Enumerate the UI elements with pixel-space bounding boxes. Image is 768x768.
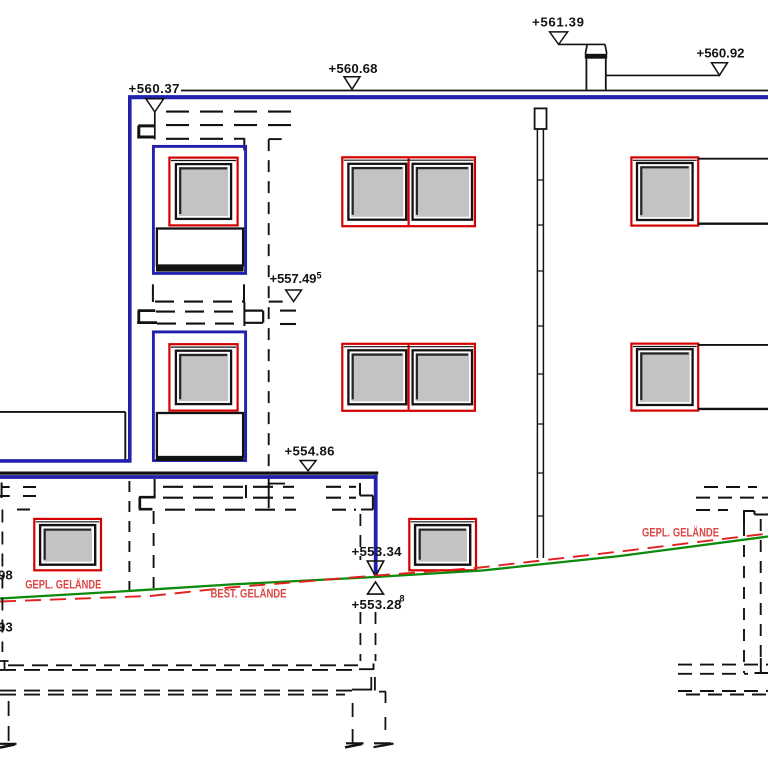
band marker tick bbox=[269, 301, 283, 303]
band dashes row1 bbox=[155, 301, 244, 303]
band short dash lower bbox=[280, 323, 296, 325]
wing blue roof line bbox=[0, 459, 132, 463]
wing parapet right edge bbox=[124, 412, 126, 460]
svg-text:+554.86: +554.86 bbox=[285, 444, 335, 459]
svg-text:+553.34: +553.34 bbox=[352, 544, 403, 559]
gepl gelaende green line bbox=[0, 537, 768, 599]
basement window left bbox=[34, 519, 101, 570]
foundation row2 solid end bbox=[352, 689, 372, 691]
bslab dashes row1 bbox=[163, 486, 294, 488]
chimney leader line bbox=[559, 43, 587, 45]
level marker +554.86 bbox=[285, 444, 335, 471]
benchmark triangle up bbox=[368, 582, 384, 594]
under-roof slab dashes row2 bbox=[166, 124, 292, 126]
foundation row1 right corner bbox=[359, 664, 374, 671]
level marker +560.37 bbox=[129, 81, 180, 112]
svg-text:+560.92: +560.92 bbox=[697, 46, 745, 61]
window W-R1 bbox=[631, 157, 698, 225]
best gelaende red dashed line bbox=[0, 534, 768, 602]
balcony slab bar upper bbox=[156, 266, 244, 272]
window W4 bbox=[169, 344, 237, 410]
neighbor wall dashed right bbox=[760, 519, 762, 658]
foundation row2b bbox=[0, 694, 345, 696]
foundation left corner bbox=[0, 660, 9, 670]
downpipe joints bbox=[537, 180, 543, 516]
band tick right bbox=[243, 284, 245, 302]
svg-text:+553.28: +553.28 bbox=[352, 597, 402, 612]
under-roof slab dashes row1 bbox=[166, 111, 296, 113]
svg-text:8: 8 bbox=[400, 594, 405, 604]
window pair W5/W6 bbox=[342, 344, 475, 411]
wing basement dashed wall bbox=[128, 481, 130, 590]
footing symbol right bbox=[374, 742, 391, 744]
foundation row1b bbox=[0, 669, 352, 671]
foundation row1a bbox=[8, 664, 358, 666]
window pair W2/W3 bbox=[342, 157, 475, 226]
svg-text:+560.37: +560.37 bbox=[129, 81, 180, 96]
benchmark triangle down bbox=[367, 561, 383, 576]
svg-text:GEPL. GELÄNDE: GEPL. GELÄNDE bbox=[25, 579, 101, 592]
left edge dashed vertical bbox=[1, 510, 3, 653]
svg-text:+560.68: +560.68 bbox=[329, 61, 378, 76]
neighbor dashes row1 bbox=[704, 486, 757, 488]
loggia blue box lower bbox=[153, 332, 245, 461]
wing bslab tick bbox=[0, 483, 10, 499]
foundation right corner bbox=[379, 692, 386, 703]
band short dash upper bbox=[280, 310, 296, 312]
foundation row2a bbox=[0, 690, 352, 692]
footing stud mid bbox=[352, 703, 354, 743]
foundation right row2b bbox=[686, 694, 768, 696]
svg-text:BEST. GELÄNDE: BEST. GELÄNDE bbox=[211, 588, 287, 601]
svg-text:GEPL. GELÄNDE: GEPL. GELÄNDE bbox=[642, 527, 719, 540]
wing parapet line bbox=[0, 411, 125, 413]
bslab dashed wall left bbox=[153, 511, 155, 588]
wing bslab dashes row2 bbox=[23, 495, 36, 497]
blue corner wall bbox=[374, 475, 378, 577]
benchmark dashed drop right bbox=[375, 612, 377, 661]
svg-text:+561.39: +561.39 bbox=[532, 15, 584, 30]
foundation right row2a bbox=[678, 690, 768, 692]
foundation right row1a bbox=[678, 664, 768, 666]
slab blue line bbox=[0, 475, 376, 479]
slab black line bbox=[0, 471, 378, 474]
level marker +561.39 bbox=[532, 15, 584, 45]
bslab bracket left bbox=[139, 497, 156, 509]
blue parapet top band bbox=[128, 95, 768, 99]
wing bslab dash extra bbox=[17, 509, 30, 511]
band lines right lower bbox=[698, 344, 768, 346]
hidden axis corner bbox=[269, 138, 282, 140]
neighbor wall dashed left bbox=[743, 524, 745, 673]
footing stud left bbox=[8, 701, 10, 743]
bslab tick mid bbox=[245, 485, 247, 498]
neighbor step bbox=[743, 511, 768, 524]
footing symbol mid bbox=[346, 742, 364, 744]
loggia blue box upper bbox=[153, 146, 245, 273]
right parapet line bbox=[607, 74, 720, 76]
neighbor dashes row3 bbox=[696, 509, 728, 511]
under-roof wall step bracket bbox=[137, 126, 155, 137]
wing bslab dashes row1 bbox=[23, 486, 36, 488]
blue left wall bbox=[128, 96, 132, 462]
loggia spandrel lower bbox=[157, 413, 243, 457]
under-roof slab dashes row3 bbox=[166, 138, 236, 140]
band bracket left bbox=[137, 311, 157, 323]
under-roof slab solid end bbox=[236, 138, 244, 151]
window W-R2 bbox=[631, 344, 698, 411]
bslab dashes row2 bbox=[163, 497, 294, 499]
hidden axis dashed vertical bbox=[268, 139, 270, 512]
window W1 bbox=[169, 158, 237, 226]
basement window middle bbox=[409, 519, 476, 570]
footing symbol left bbox=[0, 743, 17, 745]
level marker +557.49 bbox=[270, 270, 322, 301]
foundation right row1b bbox=[678, 673, 748, 675]
level marker +560.92 bbox=[697, 46, 745, 76]
band solid right vertical bbox=[243, 302, 245, 326]
bslab tick left bbox=[154, 479, 156, 497]
chimney bbox=[585, 44, 607, 89]
footing stud right bbox=[384, 717, 386, 730]
band tick left bbox=[152, 284, 154, 302]
neighbor right footing tick bbox=[755, 658, 768, 673]
band bracket right bbox=[244, 311, 263, 323]
balcony slab bar lower bbox=[156, 456, 244, 461]
roof top line bbox=[181, 90, 768, 92]
marker leader +560.37 bbox=[154, 112, 156, 139]
svg-text:5: 5 bbox=[317, 270, 322, 280]
band dashes row2 bbox=[156, 311, 243, 313]
downpipe bbox=[537, 129, 543, 558]
loggia spandrel upper bbox=[157, 229, 243, 266]
basement dashed wall mid bbox=[359, 514, 361, 560]
band lines right upper bbox=[698, 158, 768, 160]
foundation double studs bbox=[371, 677, 375, 691]
benchmark dashed drop left bbox=[359, 612, 361, 661]
neighbor dashes row2 bbox=[696, 497, 768, 499]
svg-text:+557.49: +557.49 bbox=[270, 271, 317, 286]
downpipe hopper bbox=[535, 108, 547, 129]
bslab dashes row3 bbox=[165, 509, 296, 511]
band dashes row3 bbox=[157, 323, 243, 325]
bslab right step bbox=[360, 483, 373, 510]
bslab axis corner bbox=[269, 483, 285, 498]
level marker +560.68 bbox=[329, 61, 378, 89]
